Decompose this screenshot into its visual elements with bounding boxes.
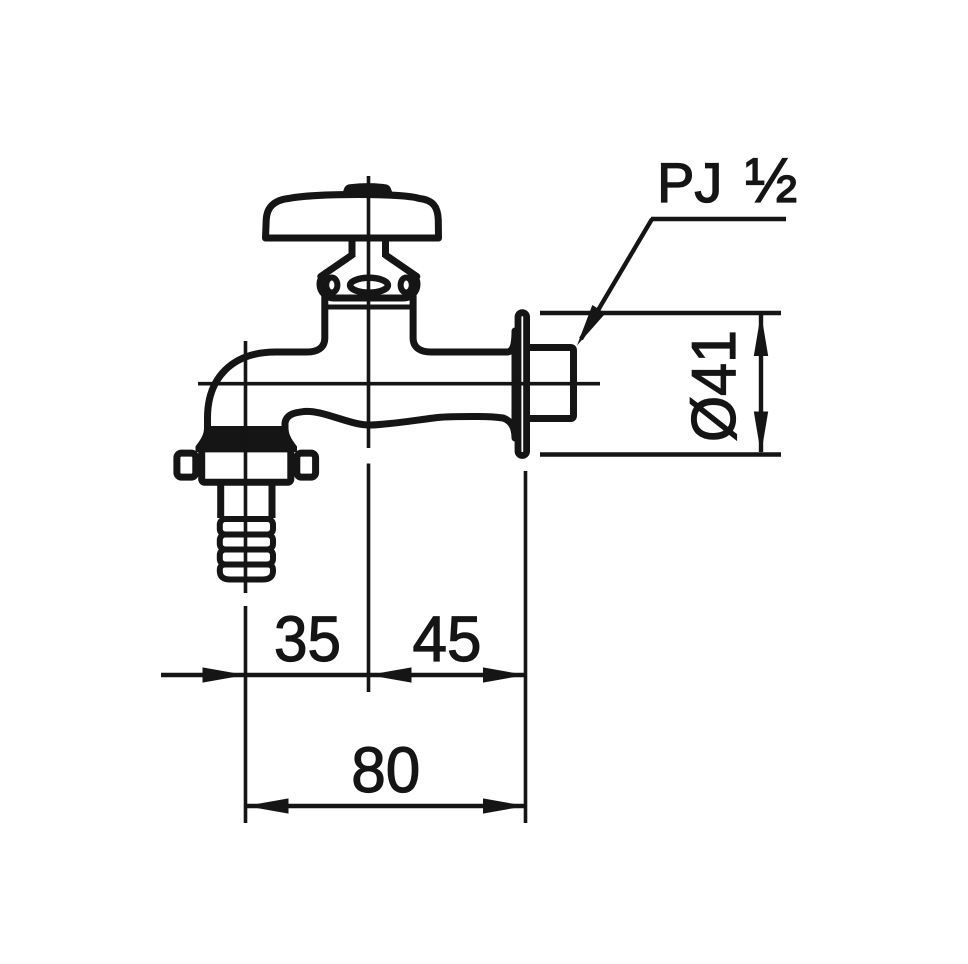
extension line top (diam 41): [540, 311, 781, 315]
capsule center ellipse: [350, 278, 388, 293]
barb ring 1: [220, 519, 273, 535]
coupling hex nut: [202, 449, 291, 482]
handle neck left line: [349, 238, 356, 257]
leader arrowhead: [577, 305, 606, 346]
svg-text:45: 45: [413, 603, 482, 675]
barb tip ring: [220, 565, 273, 580]
hose barb shank right: [269, 481, 276, 518]
capsule right ellipse: [401, 278, 412, 293]
barb ring 2: [220, 535, 273, 550]
capsule left ellipse: [326, 278, 337, 293]
svg-text:35: 35: [274, 603, 341, 675]
svg-text:80: 80: [351, 734, 420, 806]
vertical centerline main axis lower solid: [367, 464, 371, 693]
arrow left at x245 (80 dim): [246, 798, 289, 813]
arrow left at x368 (45 dim): [369, 667, 412, 682]
svg-text:PJ ½: PJ ½: [657, 146, 797, 216]
dimension line 35-45: [161, 673, 526, 677]
index cap (solid): [341, 183, 395, 198]
wall flange: [518, 313, 527, 456]
thin centerlines: [198, 176, 600, 823]
svg-text:Ø41: Ø41: [680, 330, 749, 442]
arrow down (diam41 bottom): [754, 412, 768, 455]
hex inlet block: [526, 348, 574, 419]
leader underline PJ 1/2: [651, 217, 786, 221]
capsule shoulder line: [325, 305, 413, 310]
dimensioning: [161, 219, 786, 806]
vertical centerline hose axis (solid): [244, 341, 248, 593]
arrow right at x245 (35 dim): [203, 667, 246, 682]
hose barb shank left: [217, 481, 224, 518]
leader slanted line: [581, 219, 652, 339]
extension line left (hose axis lower): [244, 606, 248, 823]
coupling flare bar (solid): [196, 426, 298, 452]
handle dome: [266, 195, 439, 239]
extension line bottom (diam 41): [540, 452, 781, 456]
arrow right at x526 (80 dim): [483, 798, 526, 813]
coupling nut right ear: [297, 453, 316, 477]
barb ring 3: [220, 550, 273, 565]
bonnet right slope: [386, 255, 417, 277]
vertical centerline main axis (solid part): [367, 176, 371, 448]
faucet main body (elbow, horizontal pipe, upper cylinder): [208, 296, 516, 444]
extension line right (wall line): [524, 471, 528, 823]
bonnet white interior: [321, 254, 416, 277]
arrow up (diam41 top): [754, 313, 768, 356]
valve capsule body: [320, 271, 417, 299]
arrow right at x526 (45 dim): [483, 667, 526, 682]
handle neck right line: [382, 238, 389, 257]
vertical dimension line diam41: [759, 315, 763, 452]
horizontal centerline pipe axis: [198, 382, 600, 386]
bonnet left slope: [321, 255, 352, 277]
dimension line 80: [246, 804, 527, 808]
coupling nut left ear: [177, 453, 196, 477]
